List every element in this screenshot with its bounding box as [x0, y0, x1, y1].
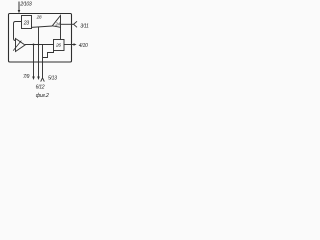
wire: amplifier 24 output to right edge — [61, 23, 74, 25]
wire: amplifier 24 bottom to block 26 top — [60, 27, 62, 39]
block 23 — [22, 16, 32, 29]
wire: vertical drop at x38.5 — [38, 27, 40, 62]
wire: vertical drop at x33.5 — [33, 45, 35, 63]
connector chevron output — [74, 21, 77, 27]
arrow: variability arrow through amplifier 25 — [13, 40, 21, 50]
op-amp U24 (left pointing triangle) — [52, 16, 60, 28]
wire: block 26 bottom elbow to x42.5 drop — [43, 51, 54, 58]
op-amp U25 (variable amplifier triangle) — [16, 39, 26, 52]
svg-text:7/9: 7/9 — [23, 74, 30, 80]
wire: block 26 output with arrow — [64, 43, 77, 45]
svg-text:26: 26 — [55, 43, 61, 49]
block 26 — [54, 40, 65, 51]
wire: vertical drop at x42.5 — [42, 45, 44, 63]
wire: block 23 output to amplifier 24 tip — [32, 26, 53, 27]
wire: top input line — [18, 2, 20, 11]
node junction dots on bus — [33, 44, 40, 46]
wire: external drop x33.5 with down arrow — [32, 62, 35, 80]
svg-text:24: 24 — [54, 22, 60, 27]
wire: external drop x42.5 with up chevron — [41, 62, 45, 82]
arrow: input arrowhead into block — [18, 10, 21, 13]
wire: external drop x38.5 with down arrow — [37, 62, 40, 80]
wire: block 23 left loop to amplifier 25 input — [14, 22, 22, 41]
svg-text:5/13: 5/13 — [48, 76, 57, 82]
svg-text:6/12: 6/12 — [36, 85, 45, 91]
svg-text:фиг.2: фиг.2 — [36, 93, 49, 99]
svg-text:23: 23 — [23, 21, 30, 27]
svg-text:4/10: 4/10 — [79, 43, 88, 49]
svg-text:2/103: 2/103 — [19, 1, 32, 7]
block outline (device 20) — [9, 14, 72, 63]
svg-text:3/11: 3/11 — [80, 24, 89, 30]
background — [0, 0, 89, 100]
wire: amplifier 25 output bus to block 26 — [25, 44, 54, 46]
svg-text:28: 28 — [36, 15, 42, 20]
